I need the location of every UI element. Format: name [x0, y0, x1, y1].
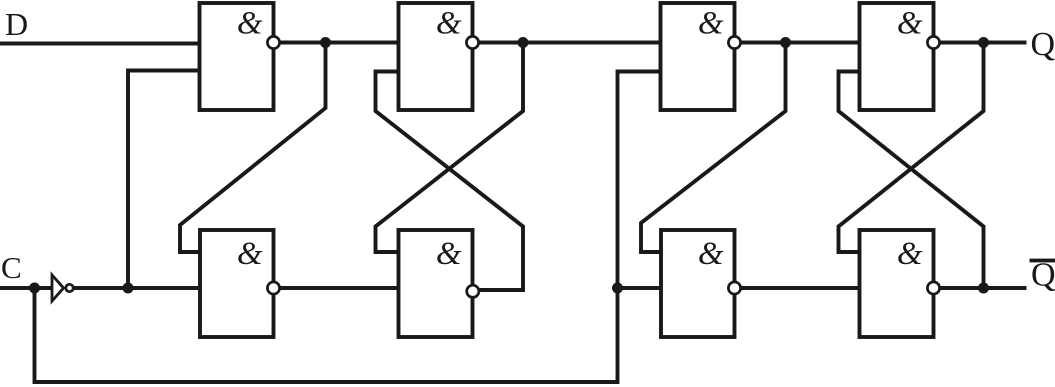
junction node Q-bar	[978, 283, 989, 294]
junction node Q	[978, 37, 989, 48]
svg-text:D: D	[5, 6, 28, 42]
svg-text:&: &	[237, 236, 263, 272]
wire U8 output cross to U7 second input	[839, 72, 984, 289]
NAND gate U8 (slave latch bottom)	[860, 230, 940, 337]
wire U1 output to U3 input (node S')	[274, 41, 399, 45]
svg-text:&: &	[897, 6, 923, 42]
wire U5 output drop to U6 upper input	[641, 43, 786, 253]
wire slave clock node to U6 lower input	[618, 286, 662, 290]
svg-text:C: C	[1, 250, 22, 285]
wire slave clock rise to U5 second input	[618, 72, 661, 289]
NAND gate U2 (master clock gate)	[200, 230, 280, 337]
wire inverter output C' to U2 input	[74, 286, 200, 290]
NAND gate U1 (master D gate)	[200, 3, 280, 110]
wire U7 output to Q terminal	[934, 41, 1027, 45]
wire U5 output to U7 input	[735, 41, 860, 45]
wire U3 output to U5 input (master Q)	[473, 41, 661, 45]
NAND gate U6 (slave input bottom)	[661, 230, 741, 337]
inverter U9 (clock inverter)	[52, 275, 73, 301]
svg-text:&: &	[237, 6, 263, 42]
junction node C'	[123, 283, 134, 294]
svg-text:&: &	[698, 236, 724, 272]
wire U3 output cross to U4 upper input	[376, 43, 524, 253]
NAND gate U4 (master latch bottom)	[399, 230, 479, 337]
junction node U5 output	[780, 37, 791, 48]
wire D input to U1	[0, 42, 200, 46]
wire node S' drop to U2 upper input	[180, 43, 326, 253]
wire C' vertical up to U1 second input	[128, 71, 200, 289]
svg-text:Q: Q	[1031, 26, 1055, 63]
NAND gate U3 (master latch top)	[399, 3, 479, 110]
NAND gate U7 (slave latch top)	[860, 3, 940, 110]
wire C input to inverter U9	[0, 286, 52, 290]
wire U2 output to U4 lower input	[274, 286, 399, 290]
junction node C input	[29, 283, 40, 294]
junction node S' (U1 output)	[320, 37, 331, 48]
junction node master Q (U3 output)	[518, 37, 529, 48]
svg-text:&: &	[698, 6, 724, 42]
label Q-bar (inverted output)	[1030, 257, 1055, 294]
wire U4 output cross to U3 second input	[376, 72, 524, 291]
NAND gate U5 (slave input top)	[661, 3, 741, 110]
wire C bottom run to slave clock node	[35, 288, 618, 382]
svg-text:&: &	[436, 6, 462, 42]
wire U8 output to Q-bar terminal	[934, 286, 1027, 290]
junction node slave clock	[612, 283, 623, 294]
wire U6 output to U8 lower input	[735, 286, 860, 290]
svg-text:&: &	[897, 236, 923, 272]
svg-text:&: &	[436, 236, 462, 272]
wire U7 output cross to U8 upper input	[839, 43, 984, 253]
